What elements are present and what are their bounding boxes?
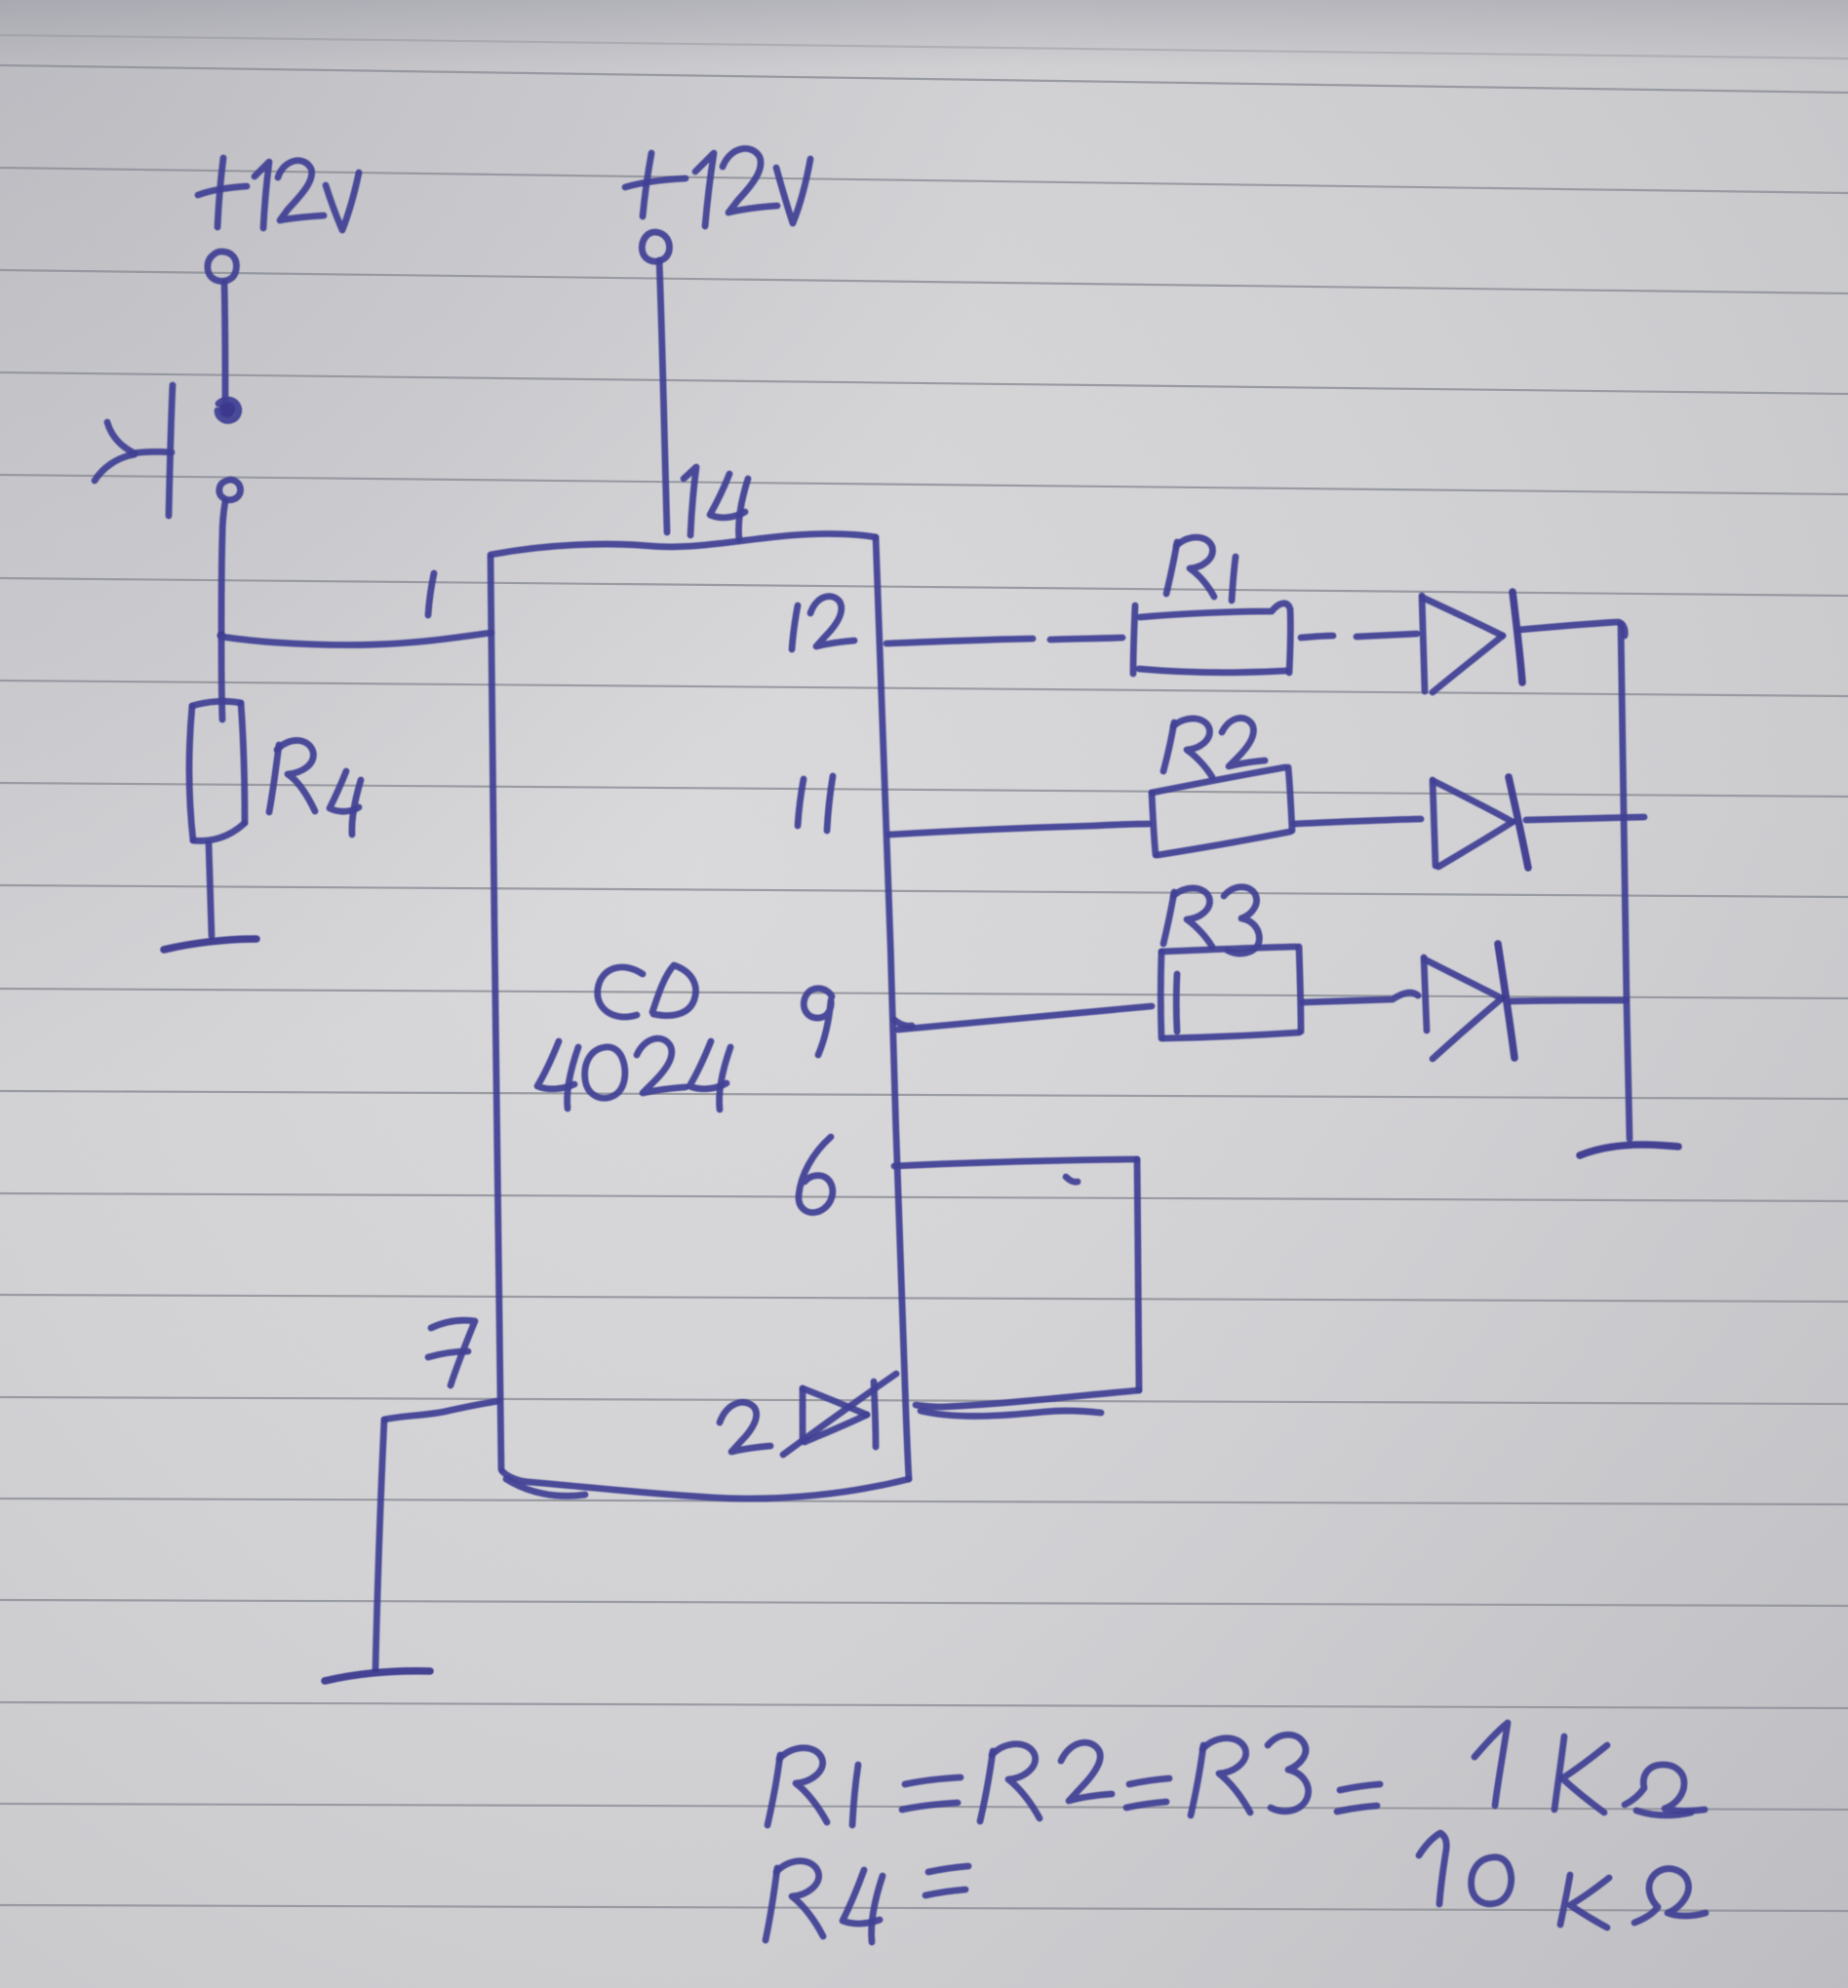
- ground (LED bus): [1580, 1145, 1678, 1155]
- diode D1: [1422, 592, 1522, 692]
- switch upper contact dot: [219, 402, 236, 418]
- wire D1 to cathode bus: [1518, 622, 1625, 636]
- pin 9 label: [804, 989, 832, 1055]
- switch lower contact circle: [219, 480, 241, 500]
- label R3: [1163, 887, 1259, 954]
- wire pin 7 to ground: [375, 1401, 498, 1669]
- wire pin 12 to R1: [886, 638, 1122, 643]
- node A junction: [217, 632, 226, 641]
- IC U1 CD4024 body: [491, 534, 909, 1500]
- resistor R1 body: [1133, 604, 1290, 674]
- wire from switch lower contact down: [221, 501, 225, 634]
- label CD: [598, 965, 696, 1017]
- label 4024: [537, 1038, 730, 1110]
- wire D3 to cathode bus: [1510, 1000, 1627, 1001]
- wire R3 to D3: [1303, 993, 1418, 1002]
- wire from +12V terminal down to switch contact: [224, 283, 225, 401]
- resistor R3 body: [1160, 947, 1301, 1038]
- wire pin 11 to R2: [889, 824, 1149, 835]
- diode D2: [1433, 777, 1528, 868]
- resistor R4 body: [189, 701, 245, 840]
- wire +12V terminal to IC pin 14: [659, 260, 667, 532]
- cathode bus wire (vertical): [1621, 624, 1630, 1139]
- label R1: [1166, 537, 1236, 601]
- diode D3: [1424, 944, 1514, 1059]
- terminal circle (right +12V): [642, 232, 669, 261]
- pushbutton switch S1 arm arrowhead curl: [107, 422, 135, 453]
- pin 11 label: [798, 776, 833, 831]
- node +12V (left supply) label: [198, 158, 359, 230]
- ground (below R4): [164, 939, 256, 950]
- small pen tick below pin 6 wire: [1066, 1177, 1078, 1182]
- pin 2 label: [720, 1402, 770, 1452]
- pin 12 label: [792, 597, 854, 649]
- wire R2 to D2: [1294, 819, 1421, 824]
- wire pin 2 overlap squiggle: [921, 1411, 1101, 1417]
- wire pin 9 to R3: [894, 1006, 1152, 1030]
- wire pin 6 loop (bottom segment to pin 2): [916, 1390, 1139, 1407]
- wire pin 6 loop (right segment): [1137, 1159, 1139, 1390]
- wire node A down to R4: [221, 639, 222, 720]
- label R2: [1163, 718, 1265, 777]
- pin 14 label: [684, 467, 748, 540]
- pushbutton switch S1 actuator plate: [169, 385, 173, 516]
- wire node A to IC pin 1: [221, 633, 491, 644]
- crossed-out diode mark at pin 2: [783, 1374, 896, 1455]
- label R4: [269, 740, 361, 835]
- pin 1 label: [428, 573, 434, 615]
- node +12V (supply above IC) label: [625, 148, 810, 226]
- ground (pin 7): [325, 1671, 430, 1681]
- formula R1 = R2 = R3 = 1 kOhm: [767, 1723, 1705, 1825]
- pin 7 label: [428, 1320, 475, 1385]
- resistor R2 body: [1152, 767, 1292, 855]
- wire R4 to ground: [209, 843, 212, 936]
- pin 6 label: [799, 1137, 833, 1213]
- pushbutton switch S1 arm: [133, 451, 172, 453]
- wire pin 6 loop (top segment): [894, 1159, 1137, 1166]
- wire D2 to cathode bus: [1526, 817, 1644, 820]
- terminal circle (left +12V): [208, 252, 237, 281]
- wire R1 to D1: [1301, 634, 1417, 638]
- formula R4 = 10 kOhm: [766, 1833, 1706, 1942]
